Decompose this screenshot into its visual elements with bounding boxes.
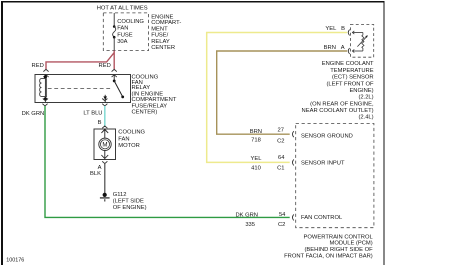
- svg-text:ENGINE COOLANT: ENGINE COOLANT: [322, 61, 374, 67]
- svg-text:FRONT FACIA, ON IMPACT BAR): FRONT FACIA, ON IMPACT BAR): [284, 253, 373, 259]
- svg-text:YEL: YEL: [251, 156, 263, 162]
- svg-text:FAN: FAN: [118, 137, 129, 143]
- svg-text:RED: RED: [99, 63, 111, 69]
- svg-text:FAN CONTROL: FAN CONTROL: [301, 215, 343, 221]
- svg-text:30A: 30A: [117, 39, 127, 45]
- svg-text:MODULE (PCM): MODULE (PCM): [330, 241, 373, 247]
- svg-text:COMPART-: COMPART-: [151, 20, 181, 26]
- svg-text:FUSE/RELAY: FUSE/RELAY: [132, 103, 168, 109]
- svg-text:100176: 100176: [6, 258, 24, 264]
- svg-text:FUSE: FUSE: [117, 33, 133, 39]
- svg-text:MOTOR: MOTOR: [118, 143, 139, 149]
- svg-text:DK GRN: DK GRN: [22, 111, 45, 117]
- svg-text:COOLING: COOLING: [118, 130, 145, 136]
- svg-text:BLK: BLK: [90, 171, 101, 177]
- svg-text:27: 27: [278, 128, 284, 134]
- svg-text:CENTER: CENTER: [151, 45, 175, 51]
- svg-text:(2.2L): (2.2L): [358, 95, 373, 101]
- svg-text:G112: G112: [113, 192, 127, 198]
- svg-text:YEL: YEL: [325, 26, 337, 32]
- svg-text:HOT AT ALL TIMES: HOT AT ALL TIMES: [97, 6, 148, 12]
- svg-text:(LEFT SIDE: (LEFT SIDE: [113, 199, 144, 205]
- svg-text:RED: RED: [32, 63, 44, 69]
- svg-text:SENSOR INPUT: SENSOR INPUT: [301, 160, 345, 166]
- svg-text:A: A: [341, 45, 345, 51]
- svg-text:M: M: [102, 142, 107, 149]
- svg-text:SENSOR GROUND: SENSOR GROUND: [301, 134, 353, 140]
- svg-text:718: 718: [251, 137, 261, 143]
- svg-text:C2: C2: [278, 222, 285, 228]
- svg-text:NEAR COOLANT OUTLET): NEAR COOLANT OUTLET): [302, 108, 374, 114]
- svg-text:(ECT) SENSOR: (ECT) SENSOR: [332, 75, 374, 81]
- svg-text:(BEHIND RIGHT SIDE OF: (BEHIND RIGHT SIDE OF: [305, 247, 374, 253]
- svg-text:54: 54: [279, 212, 286, 218]
- svg-text:(LEFT FRONT OF: (LEFT FRONT OF: [326, 81, 374, 87]
- svg-text:(ON REAR OF ENGINE,: (ON REAR OF ENGINE,: [310, 101, 374, 107]
- svg-text:TEMPERATURE: TEMPERATURE: [330, 68, 374, 74]
- svg-text:B: B: [341, 26, 345, 32]
- svg-text:BRN: BRN: [324, 45, 336, 51]
- svg-text:LT BLU: LT BLU: [83, 110, 102, 116]
- svg-text:B: B: [98, 120, 102, 126]
- svg-text:CENTER): CENTER): [132, 109, 158, 115]
- svg-text:335: 335: [245, 222, 255, 228]
- svg-text:C2: C2: [277, 139, 284, 145]
- svg-text:MENT: MENT: [151, 26, 168, 32]
- svg-text:COOLING: COOLING: [117, 19, 144, 25]
- svg-text:RELAY: RELAY: [132, 85, 151, 91]
- svg-text:RELAY: RELAY: [151, 39, 170, 45]
- svg-text:FAN: FAN: [117, 25, 128, 31]
- svg-text:BRN: BRN: [250, 129, 262, 135]
- svg-text:FUSE/: FUSE/: [151, 33, 168, 39]
- svg-text:64: 64: [278, 155, 285, 161]
- svg-text:DK GRN: DK GRN: [235, 213, 258, 219]
- svg-text:410: 410: [251, 166, 261, 172]
- svg-text:ENGINE): ENGINE): [349, 88, 373, 94]
- svg-text:(2.4L): (2.4L): [358, 115, 373, 121]
- svg-text:COMPARTMENT: COMPARTMENT: [132, 97, 177, 103]
- svg-text:OF ENGINE): OF ENGINE): [113, 205, 147, 211]
- svg-text:C1: C1: [277, 166, 284, 172]
- svg-text:POWERTRAIN CONTROL: POWERTRAIN CONTROL: [304, 234, 374, 240]
